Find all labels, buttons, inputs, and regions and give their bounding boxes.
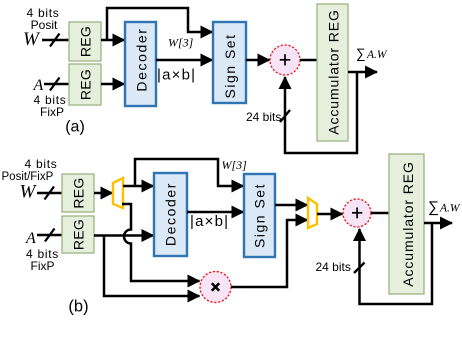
wire mux to adder (b) [317, 213, 343, 216]
wire accumulator output (b) [424, 222, 452, 225]
adder U3 (a) [270, 45, 300, 75]
svg-text:(a): (a) [65, 119, 85, 136]
decoder block U4 (b) [154, 173, 187, 256]
svg-text:∑: ∑ [356, 46, 366, 61]
sign set block U2 (a) [213, 22, 246, 103]
svg-text:∑: ∑ [428, 199, 439, 216]
wire adder to Accumulator REG (b) [371, 212, 390, 215]
bus slash on feedback (b) [354, 263, 365, 274]
wire Sign Set to adder (a) [246, 59, 270, 62]
svg-text:Sign Set: Sign Set [222, 34, 238, 99]
svg-text:Decoder: Decoder [134, 27, 150, 91]
wire W to REG1 (a) [42, 39, 70, 42]
svg-text:A: A [33, 77, 44, 94]
svg-text:A.W: A.W [439, 203, 461, 215]
register REG2 (b) [62, 216, 94, 253]
svg-text:FixP: FixP [31, 259, 55, 273]
bus slash on A wire (a) [50, 78, 60, 91]
wire A branch to multiplier (b) [104, 235, 200, 296]
svg-text:Decoder: Decoder [163, 182, 179, 246]
wire REG2 to Decoder (b) [94, 234, 154, 237]
label sum A.W (a) [356, 46, 388, 61]
wire Decoder to Sign Set (b) [187, 211, 244, 214]
wire W[3] bypass (a) [107, 8, 213, 40]
svg-text:24 bits: 24 bits [246, 110, 281, 124]
svg-text:W[3]: W[3] [168, 36, 194, 50]
sign set block U5 (b) [244, 174, 275, 257]
wire REG1 to demux (b) [94, 192, 113, 195]
svg-text:REG: REG [78, 26, 94, 57]
svg-text:W: W [23, 29, 41, 50]
label 4 bits FixP (A input b) [26, 247, 59, 273]
svg-text:(b): (b) [68, 298, 88, 316]
wire A to REG2 (b) [37, 234, 63, 237]
wire feedback loop (a) [285, 72, 357, 153]
accumulator register (a) [317, 4, 348, 141]
label 4 bits Posit/FixP (W input b) [2, 157, 58, 183]
svg-text:Sign Set: Sign Set [252, 183, 268, 248]
svg-text:Accumulator REG: Accumulator REG [400, 161, 416, 287]
bus slash on A wire (b) [45, 229, 55, 242]
svg-text:A: A [25, 230, 36, 247]
wire W[3] bypass (b) [135, 159, 244, 186]
svg-text:FixP: FixP [40, 105, 64, 119]
register REG1 (b) [62, 174, 94, 212]
demux M1 (b) [113, 178, 123, 208]
label sum A.W (b) [428, 199, 461, 216]
wire demux to multiplier (b) [122, 204, 200, 281]
wire REG1 to Decoder (a) [101, 39, 125, 42]
svg-text:REG: REG [78, 69, 94, 100]
svg-text:24 bits: 24 bits [316, 260, 351, 274]
svg-text:W[3]: W[3] [222, 158, 248, 172]
wire feedback loop (b) [360, 223, 433, 304]
wire demux to Decoder (b) [123, 185, 154, 188]
wire Sign Set to mux (b) [275, 204, 308, 207]
bus slash on W wire (a) [50, 34, 60, 47]
svg-text:A.W: A.W [366, 49, 388, 61]
decoder block U1 (a) [125, 22, 156, 106]
multiplier U6 (b) [200, 272, 231, 303]
svg-text:W: W [20, 182, 38, 203]
svg-text:REG: REG [71, 177, 87, 208]
register REG2 (a) [69, 64, 101, 105]
wire W to REG1 (b) [37, 192, 63, 195]
wire accumulator output (a) [348, 71, 377, 74]
bus slash on W wire (b) [45, 187, 55, 200]
label 4 bits Posit (W input a) [27, 6, 60, 32]
mux M2 (b) [308, 198, 317, 228]
wire adder to Accumulator REG (a) [300, 59, 318, 62]
bus slash on feedback (a) [280, 110, 290, 122]
svg-text:4 bits: 4 bits [25, 157, 58, 171]
svg-text:REG: REG [71, 219, 87, 250]
label 4 bits FixP (A input a) [34, 93, 67, 119]
adder U7 (b) [343, 199, 371, 227]
wire REG2 to Decoder (a) [101, 83, 125, 86]
wire A to REG2 (a) [44, 83, 70, 86]
register REG1 (a) [69, 22, 101, 61]
svg-text:|a×b|: |a×b| [157, 67, 196, 84]
wire Decoder to Sign Set (a) [156, 59, 213, 62]
wire multiplier to mux (b) [231, 220, 308, 287]
accumulator register (b) [389, 154, 424, 294]
svg-text:Accumulator REG: Accumulator REG [326, 9, 342, 135]
svg-text:|a×b|: |a×b| [190, 213, 229, 230]
